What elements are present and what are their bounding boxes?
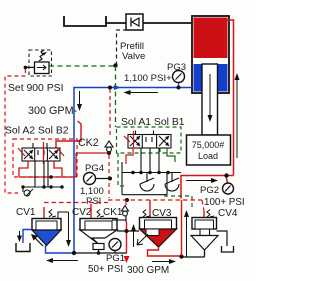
svg-text:Sol A1 Sol B1: Sol A1 Sol B1 <box>121 117 185 128</box>
svg-text:CV1: CV1 <box>16 207 36 218</box>
svg-text:100+ PSI: 100+ PSI <box>204 197 245 208</box>
svg-text:PSI: PSI <box>86 196 101 207</box>
svg-text:Valve: Valve <box>122 51 145 62</box>
svg-text:CV4: CV4 <box>218 208 238 219</box>
svg-text:50+ PSI: 50+ PSI <box>88 264 123 275</box>
svg-text:PG2: PG2 <box>200 185 219 196</box>
svg-text:300 GPM: 300 GPM <box>127 265 169 276</box>
svg-text:Load: Load <box>198 151 218 161</box>
svg-text:300 GPM-: 300 GPM- <box>28 105 78 117</box>
svg-text:CK2: CK2 <box>78 137 99 149</box>
svg-text:75,000#: 75,000# <box>192 140 225 150</box>
svg-text:CV2: CV2 <box>72 207 92 218</box>
svg-text:1,100 PSI+: 1,100 PSI+ <box>124 73 172 84</box>
svg-text:Set 900 PSI: Set 900 PSI <box>8 83 63 94</box>
svg-text:PG1: PG1 <box>106 253 125 264</box>
svg-text:Sol A2 Sol B2: Sol A2 Sol B2 <box>5 126 69 137</box>
svg-text:CK1: CK1 <box>103 207 123 218</box>
